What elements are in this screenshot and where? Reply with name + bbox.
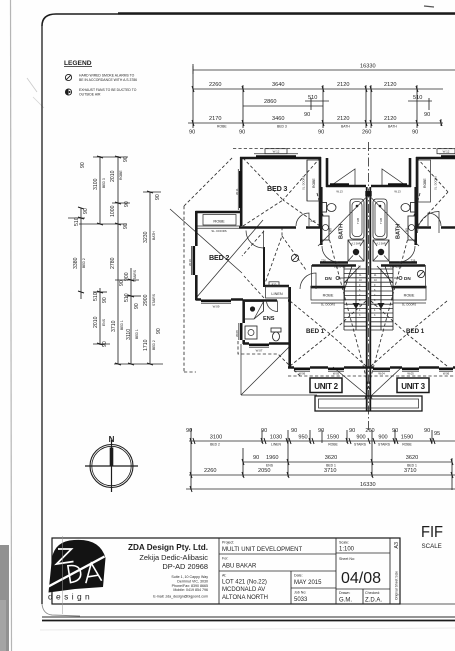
gutter solid left hip (241, 347, 289, 395)
basin right bath (408, 216, 415, 240)
bath bottom wall left (320, 261, 348, 264)
svg-text:A.2 SHR: A.2 SHR (376, 243, 386, 246)
svg-text:BED 1: BED 1 (120, 320, 124, 330)
svg-text:ALTONA NORTH: ALTONA NORTH (222, 595, 268, 601)
landing wall right (381, 264, 425, 267)
svg-text:90: 90 (189, 130, 195, 136)
svg-text:1590: 1590 (401, 435, 413, 441)
svg-text:ROBE: ROBE (328, 443, 338, 447)
roof lines (170, 142, 455, 430)
svg-text:90: 90 (134, 303, 140, 309)
porch valley right (371, 367, 402, 396)
bath left wall (320, 187, 323, 245)
door BED3 right (428, 213, 441, 226)
svg-text:2050: 2050 (258, 468, 270, 474)
svg-text:510: 510 (93, 292, 99, 301)
hall dashed ridge (264, 227, 306, 286)
BED1 left wall (288, 287, 291, 368)
svg-text:510: 510 (124, 293, 130, 302)
svg-text:3100: 3100 (210, 435, 222, 441)
svg-text:ROBE: ROBE (323, 294, 334, 298)
svg-text:Scale:: Scale: (339, 541, 349, 545)
svg-text:16151413: 16151413 (334, 265, 346, 269)
svg-text:3710: 3710 (324, 468, 336, 474)
robe BED1 right box (392, 286, 427, 289)
fixtures (245, 191, 442, 341)
overall 16330 dimension line (193, 69, 455, 71)
svg-text:G.M.: G.M. (339, 598, 352, 604)
svg-text:90: 90 (102, 297, 108, 303)
valley dashed center right (365, 193, 420, 399)
svg-text:90: 90 (291, 428, 297, 434)
svg-text:LINEN: LINEN (271, 443, 282, 447)
svg-text:2120: 2120 (337, 116, 349, 122)
porch inner (319, 399, 419, 408)
down arrow left (355, 283, 357, 305)
svg-text:1590: 1590 (327, 435, 339, 441)
svg-text:900: 900 (356, 435, 365, 441)
vertical dim line x=100 (3100 BED 3) (99, 156, 101, 224)
north arrow (85, 435, 138, 492)
roof hips BED3 right dashed (417, 158, 448, 226)
landing wall left (312, 264, 356, 267)
svg-text:510: 510 (74, 217, 80, 226)
svg-text:SL. DOORS: SL. DOORS (434, 176, 438, 190)
svg-text:W.09: W.09 (213, 305, 220, 309)
svg-text:ENS: ENS (263, 316, 275, 322)
landing-robe connector walls (312, 265, 426, 287)
svg-text:BED 3: BED 3 (267, 184, 287, 193)
svg-text:950: 950 (298, 435, 307, 441)
svg-text:W.11: W.11 (235, 188, 239, 195)
svg-text:Date:: Date: (294, 574, 303, 578)
ens wc (271, 328, 281, 332)
svg-text:W.05: W.05 (407, 372, 414, 376)
svg-text:Job No:: Job No: (294, 591, 306, 595)
svg-text:Original Sheet Size: Original Sheet Size (395, 571, 399, 600)
svg-text:ZDA Design Pty. Ltd.: ZDA Design Pty. Ltd. (128, 543, 208, 552)
BED2 internal wall (263, 247, 265, 287)
BED2 left wall (195, 211, 198, 300)
svg-text:W.12: W.12 (273, 150, 280, 154)
svg-text:TUB: TUB (356, 218, 360, 224)
svg-text:FIF: FIF (421, 523, 443, 541)
door right hall (418, 212, 440, 234)
svg-text:BED 2: BED 2 (152, 340, 156, 350)
svg-text:726: 726 (411, 259, 416, 263)
svg-text:90: 90 (349, 428, 355, 434)
svg-text:For:: For: (222, 557, 228, 561)
svg-text:2780: 2780 (110, 257, 116, 269)
svg-text:Mobile: 0419 854 796: Mobile: 0419 854 796 (173, 588, 208, 592)
row2 1960/3620/3620 (243, 461, 452, 463)
svg-text:90: 90 (124, 201, 130, 207)
window W.12 right (439, 153, 455, 155)
title block (48, 536, 455, 614)
shower corner lines (348, 256, 389, 262)
party wall (367, 187, 371, 411)
svg-text:LOT 421 (No.22): LOT 421 (No.22) (222, 580, 267, 586)
wc right bath (411, 203, 416, 213)
ENS bottom wall (243, 342, 291, 345)
svg-text:2120: 2120 (384, 116, 396, 122)
svg-text:SL. DOORS: SL. DOORS (302, 176, 306, 190)
svg-text:STAIRS: STAIRS (354, 443, 367, 447)
svg-text:design: design (48, 592, 93, 602)
window W.13 left (330, 183, 349, 185)
svg-text:90: 90 (318, 130, 324, 136)
svg-text:BATH: BATH (341, 125, 350, 129)
svg-text:W.12: W.12 (443, 150, 450, 154)
svg-text:ROBE: ROBE (213, 219, 225, 224)
svg-text:260: 260 (362, 130, 371, 136)
BED3 right wall (319, 157, 322, 227)
window W.11 (237, 169, 239, 210)
bath roof triangle left (329, 169, 355, 187)
gutter solid left edge (240, 344, 242, 395)
svg-text:W.13: W.13 (394, 190, 401, 194)
svg-text:1000: 1000 (110, 205, 116, 217)
svg-text:3230: 3230 (143, 231, 149, 243)
down arrow right (380, 283, 382, 305)
window sills (191, 246, 453, 371)
svg-text:SL. DOORS: SL. DOORS (402, 303, 416, 307)
svg-text:ABU BAKAR: ABU BAKAR (222, 564, 257, 570)
bottom dimensions (186, 428, 455, 492)
eave dashed stub (184, 371, 196, 373)
svg-text:3710: 3710 (111, 320, 117, 332)
svg-text:Derrimut VIC, 3030: Derrimut VIC, 3030 (177, 579, 208, 583)
svg-text:510: 510 (413, 95, 422, 101)
svg-text:SCALE: SCALE (422, 543, 442, 550)
bath valley diagonal left (318, 197, 367, 246)
robe sliding doors (197, 226, 241, 228)
vertical dim line x=131 (900/510/3110) (130, 268, 132, 364)
svg-text:BED 1: BED 1 (306, 328, 325, 335)
porch outer (315, 396, 422, 411)
BED3 robe box (307, 160, 320, 201)
row1 chain 90/3100/90/1030/90/950/90/1590/90/900/260/900/90/1590/90/95 (189, 440, 455, 442)
svg-text:BATH: BATH (152, 231, 156, 240)
svg-text:ROBE: ROBE (402, 443, 412, 447)
svg-text:04/08: 04/08 (341, 570, 381, 587)
svg-text:BED 1: BED 1 (326, 464, 336, 468)
svg-text:WB: WB (406, 228, 409, 232)
svg-text:BED 2: BED 2 (210, 443, 220, 447)
stairs (325, 265, 411, 331)
svg-text:1960: 1960 (266, 455, 278, 461)
bottom wall both units (288, 366, 455, 369)
door hall-ens lobby (300, 273, 316, 289)
svg-text:1030: 1030 (270, 435, 282, 441)
valley dashed center left (317, 193, 372, 399)
party wall top cap (365, 191, 371, 197)
tick marks (192, 86, 442, 126)
shower left (348, 240, 364, 261)
BED2 bottom wall (196, 298, 244, 301)
bath recess wall left (326, 158, 366, 187)
row4 16330 (186, 488, 455, 490)
svg-text:900: 900 (378, 435, 387, 441)
svg-text:ROBE: ROBE (119, 170, 123, 180)
roof hips BED2 solid (170, 209, 242, 273)
door bath right (399, 246, 415, 262)
svg-text:W.06: W.06 (443, 372, 450, 376)
eave dashed left (183, 206, 185, 372)
svg-text:LINEN: LINEN (271, 292, 282, 296)
svg-text:3620: 3620 (325, 455, 337, 461)
window W.07 (249, 343, 269, 346)
wc left bath (322, 203, 327, 213)
svg-text:95: 95 (434, 431, 440, 437)
svg-text:3710: 3710 (404, 468, 416, 474)
window W.09 (201, 299, 231, 302)
svg-text:STAIRS: STAIRS (152, 293, 156, 306)
ENS left wall (242, 300, 245, 344)
bath bottom wall right (389, 261, 417, 264)
top dimensions (188, 64, 455, 136)
svg-text:W.13: W.13 (336, 190, 343, 194)
svg-text:2010: 2010 (93, 316, 99, 328)
roof hips BED1 left dashed (290, 301, 366, 366)
svg-text:UNIT 3: UNIT 3 (401, 382, 425, 391)
eave dashed diagonal robe (184, 157, 233, 206)
svg-text:5033: 5033 (294, 597, 308, 603)
svg-text:BED 2: BED 2 (209, 253, 229, 262)
svg-text:W.06: W.06 (299, 372, 306, 376)
right unit BED3 left wall (416, 157, 419, 227)
robe BED1 left box (311, 286, 346, 289)
svg-text:DN: DN (404, 276, 411, 281)
vertical dim line x=81 (510/3380/510) (80, 208, 82, 299)
left dimensions (68, 156, 163, 365)
BED3 left wall (240, 157, 243, 226)
robe strip top wall (196, 211, 243, 214)
svg-text:820: 820 (311, 219, 316, 223)
svg-text:Zekija Dedic-Alibasic: Zekija Dedic-Alibasic (139, 553, 208, 562)
svg-text:726: 726 (321, 259, 326, 263)
small tick marks (78, 156, 153, 365)
svg-text:SL. DOORS: SL. DOORS (211, 229, 226, 233)
window W.12 (254, 153, 298, 155)
svg-text:BED 1: BED 1 (406, 328, 425, 335)
vertical dim line x=150 (3230 BATH / 2900 STAIRS / 1710) (149, 192, 151, 364)
svg-text:W.10: W.10 (188, 259, 192, 266)
svg-text:W.08: W.08 (235, 330, 239, 337)
svg-text:Checked:: Checked: (365, 591, 380, 595)
svg-text:At:: At: (222, 574, 226, 578)
party centerline (368, 142, 370, 430)
svg-text:UNIT 2: UNIT 2 (314, 382, 338, 391)
door bath left (322, 246, 338, 262)
svg-text:DN: DN (325, 276, 332, 281)
svg-text:W.05: W.05 (333, 372, 340, 376)
svg-text:Z.D.A.: Z.D.A. (365, 598, 382, 604)
svg-text:DP-AD 20968: DP-AD 20968 (162, 562, 208, 571)
svg-text:BED 2: BED 2 (82, 258, 86, 268)
extension lines (192, 64, 194, 128)
svg-text:BED 1: BED 1 (407, 464, 417, 468)
bath valley diagonal right (371, 197, 420, 246)
svg-text:LEGEND: LEGEND (64, 60, 92, 67)
hall wall top right (416, 226, 455, 229)
smoke alarm legend symbol (65, 74, 71, 80)
svg-text:90: 90 (155, 194, 161, 200)
svg-text:ENS: ENS (102, 318, 106, 326)
svg-text:BED 3: BED 3 (102, 178, 106, 188)
svg-text:510: 510 (308, 95, 317, 101)
svg-text:TUB: TUB (379, 218, 383, 224)
svg-text:ROBE: ROBE (312, 178, 316, 188)
bottom windows (294, 367, 453, 370)
svg-text:2120: 2120 (384, 82, 396, 88)
exhaust fan legend symbol (65, 89, 71, 95)
svg-text:OUTSIDE AIR: OUTSIDE AIR (79, 92, 101, 96)
svg-text:16330: 16330 (360, 64, 376, 70)
svg-text:90: 90 (304, 112, 310, 118)
svg-text:2120: 2120 (337, 82, 349, 88)
svg-text:2170: 2170 (209, 116, 221, 122)
ens shower (245, 302, 264, 320)
svg-text:BE IN ACCORDANCE WITH A.S.3786: BE IN ACCORDANCE WITH A.S.3786 (79, 78, 137, 82)
svg-text:90: 90 (412, 130, 418, 136)
eave dashed bottom (288, 375, 455, 377)
svg-text:16330: 16330 (360, 482, 376, 488)
eave dashed top (233, 148, 455, 150)
bath right unit wall (414, 187, 417, 245)
svg-text:BATH: BATH (396, 224, 402, 239)
svg-text:2900: 2900 (143, 294, 149, 306)
svg-text:BATH: BATH (388, 125, 397, 129)
svg-text:Suite 1, 10 Cappy Way: Suite 1, 10 Cappy Way (171, 575, 208, 579)
chain 2860 510 (243, 105, 323, 107)
basin left bath (322, 216, 329, 240)
bath recess wall right (371, 158, 411, 187)
svg-text:1710: 1710 (143, 339, 149, 351)
svg-text:3460: 3460 (272, 116, 284, 122)
legend (64, 60, 137, 96)
svg-text:90: 90 (253, 455, 259, 461)
door BED2 (246, 231, 264, 249)
window W.10 (193, 246, 196, 275)
svg-text:260: 260 (365, 428, 374, 434)
svg-text:STAIRS: STAIRS (378, 443, 391, 447)
smoke alarm hall right (417, 270, 424, 277)
svg-text:3380: 3380 (73, 257, 79, 269)
svg-text:A3: A3 (394, 542, 400, 549)
roof hips BED1 right dashed (371, 301, 447, 366)
ticks row1 (190, 438, 453, 492)
top wall BED3 (240, 157, 321, 160)
window W.13 right (388, 183, 407, 185)
svg-text:Phone/Fax: 8390 8665: Phone/Fax: 8390 8665 (172, 584, 208, 588)
svg-text:W.04: W.04 (378, 372, 385, 376)
svg-text:BATH: BATH (339, 224, 345, 239)
roof hips BED2 dashed (242, 231, 264, 298)
door BED3 (296, 213, 309, 226)
svg-text:2860: 2860 (264, 99, 276, 105)
unit boxes (310, 378, 342, 393)
svg-text:3110: 3110 (126, 329, 132, 340)
ZDA logo (49, 540, 106, 593)
right unit robe box (418, 160, 431, 202)
svg-text:90: 90 (80, 162, 86, 168)
svg-text:90: 90 (424, 428, 430, 434)
window labels (265, 149, 287, 154)
ens basin (245, 326, 257, 339)
porch valley left (333, 367, 368, 396)
svg-text:ENS: ENS (266, 464, 274, 468)
hall wall top left (239, 226, 321, 229)
svg-text:MAY 2015: MAY 2015 (294, 580, 322, 586)
vertical dim line x=100 lower (510/2010 ENS) (99, 288, 101, 345)
svg-text:90: 90 (318, 428, 324, 434)
smoke alarm hall left (291, 254, 298, 261)
tub left (350, 199, 364, 239)
svg-text:13141516: 13141516 (390, 265, 402, 269)
svg-text:90: 90 (239, 130, 245, 136)
ENS top wall (243, 299, 290, 302)
svg-text:2010: 2010 (110, 170, 116, 182)
svg-text:Project:: Project: (222, 541, 234, 545)
LINEN box (265, 285, 289, 288)
svg-text:BED 1: BED 1 (135, 329, 139, 339)
eave dashed around ENS (238, 341, 300, 376)
svg-text:ROBE: ROBE (423, 178, 427, 188)
svg-text:MULTI UNIT DEVELOPMENT: MULTI UNIT DEVELOPMENT (222, 547, 302, 553)
svg-text:BED 3: BED 3 (277, 125, 287, 129)
window W.08 (240, 323, 243, 340)
stair side walls (344, 266, 393, 330)
plan walls (191, 154, 455, 411)
svg-text:3640: 3640 (272, 82, 284, 88)
svg-text:90: 90 (424, 112, 430, 118)
door ens (267, 301, 278, 312)
shower right (373, 240, 389, 261)
svg-text:W.07: W.07 (256, 349, 263, 353)
row3 2260/2050/3710/3710 (189, 474, 455, 476)
bath roof triangle right (382, 169, 408, 187)
svg-text:E-mail: zda_design@bigpond.com: E-mail: zda_design@bigpond.com (153, 595, 208, 599)
svg-text:SL. DOORS: SL. DOORS (321, 303, 335, 307)
svg-text:Drawn:: Drawn: (339, 591, 350, 595)
extension verticals (190, 428, 192, 490)
svg-text:3620: 3620 (406, 455, 418, 461)
gutter solid bottom (241, 394, 317, 396)
svg-text:Sheet No:: Sheet No: (339, 557, 355, 561)
vertical dim line x=118 (2010/1000/2780/3710) (117, 156, 119, 364)
tub right (373, 199, 387, 239)
chain 2260 3640 2120 2120 (193, 88, 443, 90)
svg-text:3100: 3100 (93, 178, 99, 190)
horizontal tick lines (93, 156, 128, 158)
svg-text:2260: 2260 (204, 468, 216, 474)
roof hips BED3 dashed (243, 158, 320, 226)
top wall right unit (416, 157, 455, 160)
svg-text:A.2 SHR: A.2 SHR (351, 243, 361, 246)
svg-text:ROBE: ROBE (217, 125, 227, 129)
svg-text:90: 90 (156, 328, 162, 334)
svg-text:MCDONALD AV: MCDONALD AV (222, 587, 265, 593)
svg-text:2260: 2260 (209, 82, 221, 88)
svg-text:ROBE: ROBE (404, 294, 415, 298)
svg-text:1:100: 1:100 (339, 547, 355, 553)
chain 2170 3460 2120 2120 (188, 122, 443, 124)
